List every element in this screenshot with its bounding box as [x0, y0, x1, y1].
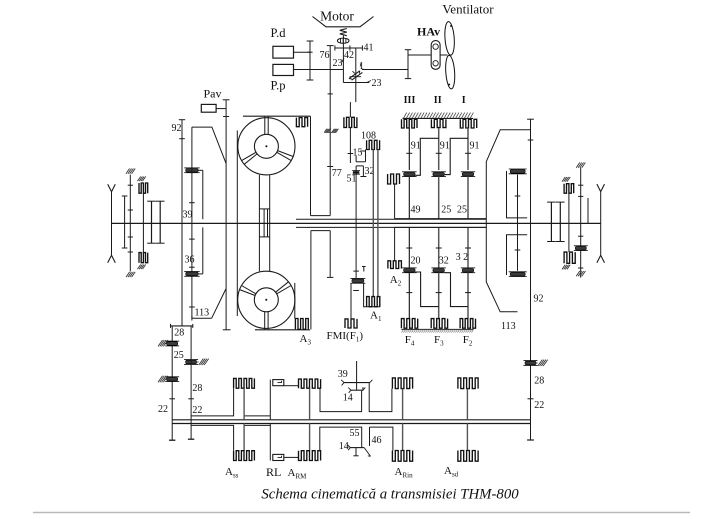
clutch ARin top coil	[392, 378, 412, 389]
right brake coil bottom	[564, 252, 575, 263]
left brake connecting line	[142, 193, 144, 252]
wire P.d to gear shaft	[294, 51, 311, 53]
brake coil II	[431, 119, 446, 127]
clutch A2 upper line	[394, 184, 396, 219]
svg-text:3 2: 3 2	[456, 252, 469, 263]
gear disc 91 II	[433, 172, 445, 176]
converter top spoke	[264, 116, 266, 134]
hydraulic coupling HAv	[431, 41, 440, 70]
clutch ARin bottom line	[402, 424, 404, 451]
gear bracket right lower	[202, 227, 204, 274]
shaft 51 to FMI disc	[355, 166, 357, 278]
svg-text:Ass: Ass	[225, 466, 239, 480]
left axle Y arrow top	[108, 184, 112, 192]
shaft below coil	[349, 102, 351, 117]
gear mesh pads on 76 shaft	[324, 129, 327, 133]
converter right frame upper	[310, 116, 312, 215]
bevel gear mesh	[349, 71, 360, 79]
svg-text:23: 23	[333, 58, 343, 69]
svg-text:F3: F3	[434, 334, 444, 348]
gear bracket right upper	[202, 170, 204, 219]
right axle Y arrow top	[597, 184, 601, 192]
gear shaft 77 below axis	[329, 231, 331, 278]
gear leg right	[190, 326, 192, 439]
svg-text:20: 20	[411, 256, 421, 267]
clutch Asd bottom line	[466, 424, 468, 451]
svg-text:77: 77	[332, 168, 342, 179]
left axle shaft	[111, 192, 113, 256]
frame hatched wall top	[403, 117, 474, 119]
planet carrier connector lower	[395, 226, 487, 228]
clutch A3 coil	[295, 319, 308, 330]
wire P.p to bevel	[294, 69, 344, 71]
clutch A1 bracket	[364, 283, 380, 307]
svg-text:1: 1	[359, 61, 364, 72]
planet column I upper shaft	[408, 128, 410, 170]
bottom shaft lower line	[172, 423, 530, 425]
fan blade bottom	[445, 55, 456, 89]
gear disc 39	[186, 169, 199, 173]
hatch arrow 28 right	[538, 360, 543, 366]
wire Pav to shaft	[216, 108, 226, 110]
bevel gear input shaft left	[342, 48, 344, 83]
bearing hatch left top	[126, 169, 130, 174]
right axle shaft	[600, 192, 602, 256]
svg-text:113: 113	[195, 308, 210, 319]
fan blade top	[444, 21, 456, 55]
svg-text:46: 46	[372, 435, 382, 446]
interconnect upper b	[445, 138, 468, 174]
mesh disc 25 right leg	[186, 360, 197, 364]
svg-text:Schema cinematică a transmisie: Schema cinematică a transmisiei THM-800	[261, 487, 519, 503]
svg-text:RL: RL	[266, 465, 281, 479]
upper synchro bar 39	[344, 382, 370, 384]
mesh disc lower left	[167, 377, 178, 381]
clutch A2 upper coil	[388, 174, 400, 184]
svg-text:51: 51	[347, 174, 357, 185]
svg-text:25: 25	[441, 205, 451, 216]
bearing hatch left bottom	[126, 272, 130, 277]
clutch A2 coil	[388, 261, 402, 269]
pump P.p box	[273, 64, 294, 75]
planet column II to axis	[438, 177, 440, 220]
tick 15	[360, 150, 365, 152]
right axle gear shaft with bearings	[580, 168, 582, 278]
left brake coil top	[139, 183, 148, 193]
right transfer gear shaft	[517, 175, 519, 271]
svg-text:F4: F4	[405, 334, 415, 348]
planet column II lower	[438, 227, 440, 268]
motor spring coupling	[340, 29, 347, 36]
converter bottom wheel upper spokes	[277, 286, 291, 294]
frame diagonal upper	[192, 127, 226, 163]
bottom rule	[33, 512, 690, 514]
svg-text:76: 76	[320, 50, 330, 61]
svg-text:22: 22	[158, 404, 168, 415]
converter turbine wheel bottom circle	[238, 271, 295, 328]
svg-text:Asd: Asd	[444, 465, 459, 479]
bottom connector lower left	[191, 425, 234, 450]
clutch ARM bottom coil	[299, 451, 321, 461]
clutch Ass top line	[243, 388, 245, 420]
gear disc lower I	[404, 269, 416, 273]
svg-text:ARM: ARM	[288, 467, 308, 481]
step ARM to synchro lower	[320, 427, 362, 451]
FMI gear disc	[352, 279, 364, 283]
converter bottom cover line	[255, 329, 310, 331]
svg-text:92: 92	[534, 294, 544, 305]
gear shaft 76-77	[329, 46, 331, 216]
right axle Y arrow bottom	[597, 255, 601, 262]
converter hub shaft	[258, 175, 260, 271]
svg-text:22: 22	[534, 400, 544, 411]
reactor U lower	[311, 230, 330, 232]
right brake connecting line	[568, 193, 570, 252]
wire fan shaft	[408, 54, 431, 56]
gear disc right lower	[510, 272, 525, 276]
gear disc right axle	[575, 246, 586, 250]
clutch A1 feed lines	[372, 150, 374, 297]
free wheel RL bottom line	[269, 424, 271, 461]
free wheel RL bottom box	[273, 454, 284, 460]
fan support shaft	[407, 50, 409, 79]
wire RL to ARM	[284, 385, 299, 387]
converter right frame lower	[310, 231, 312, 330]
svg-text:HAv: HAv	[417, 25, 440, 39]
step synchro to ARin upper	[369, 383, 392, 412]
clutch A2 lower line	[394, 227, 396, 260]
svg-text:39: 39	[183, 210, 193, 221]
mesh disc 28	[167, 342, 178, 346]
gear disc lower II	[433, 269, 445, 273]
converter top wheel lower spokes	[242, 152, 256, 160]
hatch arrow 25	[199, 359, 204, 365]
shaft main axis center line	[112, 222, 601, 224]
svg-text:22: 22	[192, 405, 202, 416]
brake coil F4	[401, 319, 417, 329]
step bracket under 15	[365, 150, 367, 162]
svg-text:28: 28	[174, 328, 184, 339]
gear leg left 28-25-22	[171, 326, 173, 440]
planet carrier connector upper	[395, 218, 487, 220]
clutch Ass bottom coil	[234, 451, 255, 461]
clutch Asd top line	[466, 389, 468, 420]
frame 113 left bottom	[192, 317, 212, 319]
frame bracket right	[486, 130, 530, 312]
left axle gear shaft with bearings	[129, 175, 131, 272]
clutch ARin bottom coil	[392, 451, 412, 462]
svg-text:36: 36	[185, 255, 195, 266]
planet column III upper shaft	[467, 128, 469, 170]
left axle short gear shaft	[124, 196, 126, 248]
pump Pav box	[201, 104, 216, 112]
svg-text:91: 91	[470, 141, 480, 152]
lower synchro bar 55	[350, 447, 364, 449]
wire HAv to fan	[440, 54, 447, 56]
clutch ARM top coil	[299, 379, 321, 388]
bottom shaft upper line	[172, 419, 530, 421]
clutch Ass bottom line	[243, 424, 245, 451]
svg-text:49: 49	[411, 205, 421, 216]
clutch ARM top line	[309, 388, 311, 420]
svg-text:23: 23	[372, 78, 382, 89]
svg-text:91: 91	[411, 141, 421, 152]
planet column III to brake	[467, 273, 469, 319]
svg-text:Pav: Pav	[204, 87, 222, 101]
svg-text:91: 91	[440, 141, 450, 152]
motor elastic coupling	[337, 38, 349, 43]
svg-text:F2: F2	[463, 334, 473, 348]
bottom connector upper left	[191, 388, 234, 416]
free wheel RL top box	[273, 380, 284, 386]
gear disc lower III	[462, 269, 474, 273]
right brake hatch top	[562, 177, 565, 182]
clutch FMI F1 coil	[345, 319, 357, 328]
planet column I to brake	[408, 273, 410, 319]
step bracket 51-32	[356, 165, 363, 167]
clutch Ass top coil	[234, 378, 255, 388]
shaft main axis upper line	[296, 218, 486, 220]
planet column II upper shaft	[438, 128, 440, 170]
svg-text:P.d: P.d	[271, 26, 287, 40]
left axle gear block	[151, 201, 153, 243]
right transfer inner bracket lower	[507, 235, 528, 275]
right brake hatch bottom	[562, 265, 565, 270]
shaft main axis lower line	[296, 226, 486, 228]
interconnect lower b	[445, 273, 468, 307]
svg-text:25: 25	[457, 205, 467, 216]
clutch A1 coil	[367, 297, 380, 307]
svg-text:55: 55	[350, 428, 360, 439]
interconnect lower a	[415, 272, 439, 307]
svg-text:14: 14	[343, 393, 353, 404]
planet column I lower	[408, 227, 410, 268]
gear transfer bar left	[171, 325, 193, 327]
svg-text:III: III	[404, 95, 416, 106]
svg-text:32: 32	[439, 256, 449, 267]
svg-text:15: 15	[353, 148, 363, 159]
planet column III to axis	[467, 177, 469, 220]
svg-text:Motor: Motor	[320, 9, 354, 24]
clutch ARin top line	[402, 389, 404, 420]
converter top cover line	[243, 115, 311, 117]
svg-text:I: I	[462, 95, 466, 106]
FMI side tick	[363, 267, 365, 272]
bottom connector lower Ass-RL	[244, 424, 270, 426]
long output shaft right	[530, 119, 532, 440]
converter bottom spoke	[264, 312, 266, 330]
pump P.d box	[273, 46, 294, 58]
tick 77	[327, 166, 333, 168]
svg-text:II: II	[434, 95, 442, 106]
clutch 108 coil	[367, 140, 380, 149]
hatch arrow lower left	[158, 376, 163, 382]
left brake coil bottom	[139, 253, 148, 263]
svg-text:25: 25	[174, 350, 184, 361]
lower synchro diagonal	[364, 448, 370, 457]
reactor U upper	[311, 215, 331, 217]
motor bracket	[313, 17, 374, 27]
clutch Asd top coil	[458, 378, 478, 389]
step ARM to synchro upper	[320, 388, 362, 411]
svg-text:14: 14	[339, 441, 349, 452]
bottom connector upper Ass-RL	[244, 415, 270, 417]
motor shaft vertical	[342, 36, 344, 49]
converter left frame line	[236, 131, 238, 317]
interconnect upper a	[415, 138, 439, 175]
svg-text:A2: A2	[390, 274, 402, 288]
planet column II to brake	[438, 273, 440, 319]
brake coil F3	[431, 319, 447, 329]
bearing hatch right top	[576, 163, 580, 168]
svg-text:42: 42	[344, 50, 354, 61]
gear shaft 92 left	[181, 120, 183, 326]
right axle gear block	[550, 202, 552, 241]
bearing hatch right bottom	[576, 271, 580, 276]
step synchro to ARin lower	[369, 427, 371, 446]
frame 113 diagonal lower	[212, 289, 226, 318]
right axle short shaft	[587, 198, 589, 223]
right transfer inner bracket upper	[507, 171, 528, 218]
brake coil III	[460, 119, 476, 128]
mesh disc 28 right	[525, 361, 536, 365]
svg-text:113: 113	[501, 321, 516, 332]
converter pump wheel top circle	[238, 118, 295, 175]
clutch ARM bottom line	[309, 424, 311, 451]
svg-text:A1: A1	[370, 310, 382, 324]
svg-text:28: 28	[192, 383, 202, 394]
gear disc 36	[186, 272, 199, 276]
gear crossbar 41	[335, 47, 363, 49]
gear disc 91 III	[462, 172, 474, 176]
svg-text:A3: A3	[300, 333, 312, 347]
free wheel RL top line	[269, 380, 271, 420]
pav drive shaft	[225, 100, 227, 330]
brake coil F2	[460, 319, 475, 329]
lower synchro stub	[355, 448, 357, 456]
svg-text:28: 28	[534, 376, 544, 387]
svg-text:ARin: ARin	[395, 466, 414, 480]
svg-text:92: 92	[172, 123, 182, 134]
converter output line to A3	[294, 283, 296, 319]
gear shaft 39-36	[191, 173, 193, 318]
left brake hatch bottom	[138, 265, 141, 270]
gear disc 91 I	[404, 172, 416, 176]
hatch arrow 28	[158, 340, 163, 346]
clutch Asd bottom coil	[458, 451, 478, 462]
left brake hatch top	[138, 177, 141, 182]
bevel gear frame bottom	[343, 82, 369, 84]
brake coil I	[402, 119, 418, 128]
planet column I to axis	[408, 177, 410, 220]
svg-text:Ventilator: Ventilator	[442, 2, 494, 17]
svg-text:P.p: P.p	[271, 79, 286, 93]
converter hub spline	[259, 208, 269, 210]
left axle Y arrow bottom	[108, 255, 112, 262]
clutch coil on 76 shaft	[344, 117, 357, 127]
svg-text:FMI(F1): FMI(F1)	[327, 330, 364, 344]
pto shaft vertical	[356, 361, 358, 390]
upper synchro gear 14	[351, 389, 363, 391]
FMI step to coil	[350, 283, 352, 319]
svg-text:41: 41	[364, 43, 374, 54]
pump drive gear shaft	[309, 41, 311, 80]
svg-text:39: 39	[338, 369, 348, 380]
svg-text:108: 108	[361, 131, 376, 142]
bevel gear input shaft right	[355, 48, 357, 102]
wire bevel to fan bracket	[362, 69, 408, 71]
frame hatched floor	[401, 328, 473, 330]
gear disc right upper	[510, 170, 525, 174]
converter clutch coil top	[296, 118, 307, 127]
planet column III lower	[467, 227, 469, 268]
right brake coil top	[564, 184, 574, 194]
